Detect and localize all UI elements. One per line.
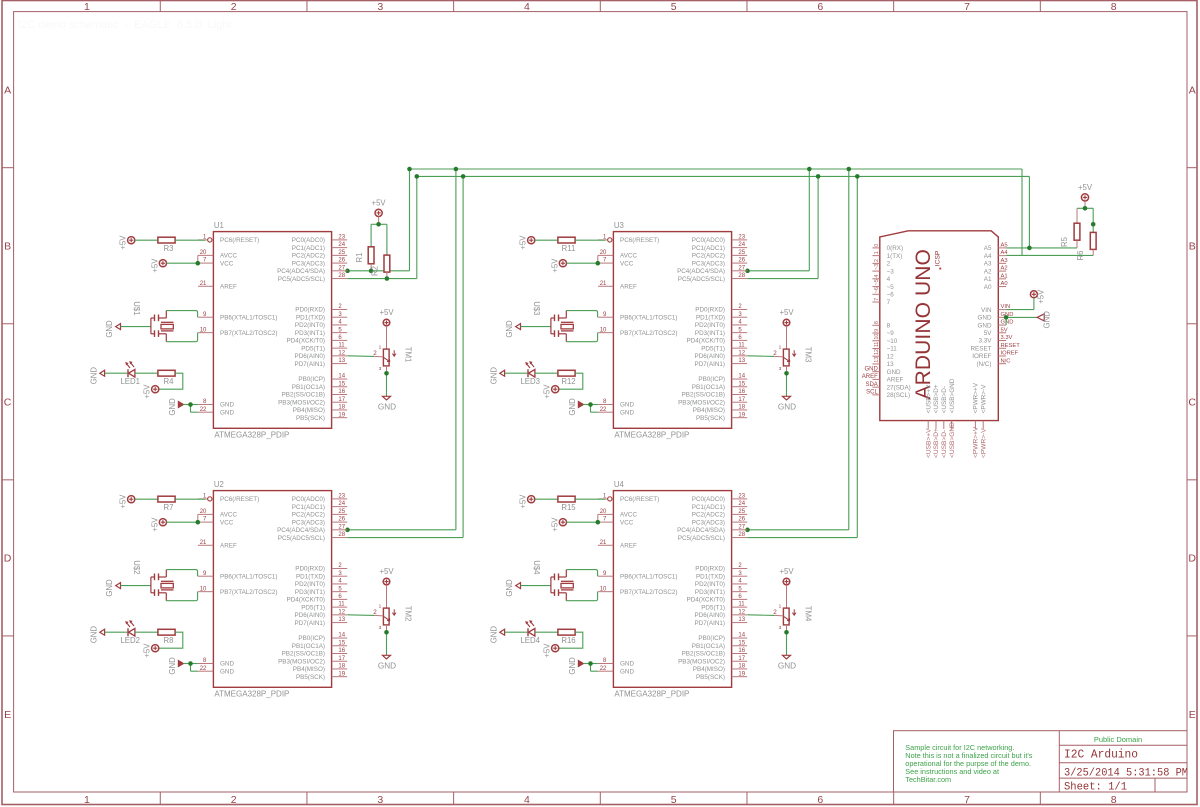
junction U3 SDA bus dot bbox=[807, 167, 812, 172]
svg-text:B: B bbox=[4, 241, 11, 253]
wire gnd to LED1 bbox=[105, 372, 128, 374]
svg-text:A5: A5 bbox=[1001, 243, 1008, 249]
svg-text:AREF: AREF bbox=[887, 377, 904, 384]
ground TM3 bbox=[783, 396, 791, 400]
svg-text:VCC: VCC bbox=[620, 260, 634, 267]
wire +5V to R3 bbox=[135, 239, 158, 241]
svg-text:GND: GND bbox=[864, 366, 878, 372]
svg-text:<USB>D-: <USB>D- bbox=[941, 386, 948, 413]
svg-text:<USB>+V: <USB>+V bbox=[925, 384, 932, 413]
title block frame bbox=[894, 731, 1188, 792]
svg-text:24: 24 bbox=[738, 501, 745, 507]
ground arduino bbox=[1037, 311, 1051, 329]
wire gnd to LED3 bbox=[505, 372, 528, 374]
svg-text:PC2(ADC2): PC2(ADC2) bbox=[292, 512, 325, 519]
frame column tick 5 top bbox=[746, 1, 748, 12]
svg-text:A0: A0 bbox=[1001, 281, 1008, 287]
junction TM4 dot bbox=[784, 630, 789, 635]
svg-text:<USB>D-: <USB>D- bbox=[941, 430, 948, 458]
wire +5V to R11 bbox=[535, 239, 558, 241]
wire LED4 to R16 bbox=[535, 631, 558, 633]
svg-text:R12: R12 bbox=[561, 377, 575, 386]
svg-text:PB5(SCK): PB5(SCK) bbox=[696, 674, 725, 681]
svg-text:PD6(AIN0): PD6(AIN0) bbox=[695, 353, 725, 360]
wire LED2 to R8 bbox=[135, 631, 158, 633]
svg-text:PD5(T1): PD5(T1) bbox=[701, 604, 725, 611]
svg-text:ATMEGA328P_PDIP: ATMEGA328P_PDIP bbox=[614, 690, 689, 699]
power +5V R1R2 bbox=[375, 209, 382, 216]
svg-text:PD5(T1): PD5(T1) bbox=[301, 604, 325, 611]
ground U3 crystal bbox=[516, 324, 521, 330]
svg-text:GND: GND bbox=[220, 402, 234, 409]
IC U1 ATMEGA328P_PDIP box bbox=[213, 221, 331, 440]
ground TM2 bbox=[383, 655, 391, 659]
wire +5V to R5 R6 bbox=[1077, 201, 1093, 232]
wire +5V to TM4 bbox=[786, 585, 788, 608]
svg-text:+5V: +5V bbox=[150, 258, 159, 273]
svg-text:28: 28 bbox=[738, 532, 745, 538]
svg-text:R4: R4 bbox=[164, 377, 175, 386]
svg-text:U$2: U$2 bbox=[132, 560, 141, 574]
resistor R6 bbox=[1076, 232, 1096, 260]
svg-text:10: 10 bbox=[200, 586, 207, 592]
svg-text:<PWR>+V: <PWR>+V bbox=[973, 382, 980, 413]
svg-text:~9: ~9 bbox=[887, 330, 895, 337]
svg-text:21: 21 bbox=[200, 540, 207, 546]
svg-text:PD2(INT0): PD2(INT0) bbox=[695, 581, 725, 588]
IC ARDUINO bottom pins USB bbox=[925, 378, 955, 458]
junction U2 SCL bus dot bbox=[461, 174, 466, 179]
svg-text:+5V: +5V bbox=[143, 643, 152, 658]
svg-text:+5V: +5V bbox=[119, 235, 128, 250]
svg-text:8: 8 bbox=[874, 321, 880, 324]
svg-text:2: 2 bbox=[231, 1, 237, 13]
svg-text:5: 5 bbox=[671, 794, 677, 806]
svg-text:AREF: AREF bbox=[220, 542, 237, 549]
svg-text:PB6(XTAL1/TOSC1): PB6(XTAL1/TOSC1) bbox=[220, 314, 278, 321]
junction U1 SDA bus dot bbox=[407, 167, 412, 172]
svg-text:10: 10 bbox=[600, 327, 607, 333]
svg-text:PD4(XCK/T0): PD4(XCK/T0) bbox=[287, 338, 326, 345]
frame column tick 6 bottom bbox=[893, 792, 895, 805]
wire R3 to pin1 bbox=[175, 239, 205, 241]
wire gnd to pin8/22 bbox=[183, 664, 198, 672]
power +5V U2 reset bbox=[128, 496, 135, 503]
svg-text:27(SDA): 27(SDA) bbox=[887, 384, 911, 391]
svg-text:13: 13 bbox=[887, 361, 895, 368]
svg-text:~11: ~11 bbox=[887, 346, 898, 353]
resistor R3 bbox=[158, 237, 175, 243]
svg-text:26: 26 bbox=[338, 517, 345, 523]
svg-text:ICSP: ICSP bbox=[935, 250, 942, 266]
svg-text:GND: GND bbox=[378, 661, 396, 670]
svg-text:B: B bbox=[1189, 241, 1196, 253]
svg-text:GND: GND bbox=[778, 402, 796, 411]
svg-text:5: 5 bbox=[671, 1, 677, 13]
svg-text:PD3(INT1): PD3(INT1) bbox=[295, 589, 325, 596]
svg-text:PD4(XCK/T0): PD4(XCK/T0) bbox=[287, 597, 326, 604]
svg-text:GND: GND bbox=[1043, 311, 1052, 329]
svg-text:6: 6 bbox=[817, 794, 823, 806]
svg-text:4: 4 bbox=[887, 276, 891, 283]
svg-text:12: 12 bbox=[887, 353, 895, 360]
junction A5 dot bbox=[1027, 246, 1032, 251]
junction U4 SCL bus dot bbox=[855, 174, 860, 179]
svg-text:PB1(OC1A): PB1(OC1A) bbox=[292, 384, 325, 391]
IC ARDUINO left pins 8-13 gnd aref sda scl bbox=[862, 321, 911, 399]
svg-text:PC2(ADC2): PC2(ADC2) bbox=[692, 512, 725, 519]
svg-text:U$3: U$3 bbox=[532, 301, 541, 315]
power +5V U4 VCC bbox=[559, 519, 566, 526]
power +5V TM4 bbox=[783, 578, 790, 585]
svg-text:11: 11 bbox=[338, 602, 345, 608]
frame column tick 4 bottom bbox=[599, 792, 601, 805]
frame column tick 2 bottom bbox=[306, 792, 308, 805]
svg-text:AREF: AREF bbox=[620, 542, 637, 549]
svg-text:GND: GND bbox=[489, 626, 498, 644]
resistor R4 bbox=[158, 370, 175, 376]
svg-text:19: 19 bbox=[738, 671, 745, 677]
svg-text:+5V: +5V bbox=[550, 517, 559, 532]
svg-text:PC3(ADC3): PC3(ADC3) bbox=[292, 260, 325, 267]
junction +5V dot bbox=[376, 222, 381, 227]
resistor R2 bbox=[371, 255, 390, 278]
junction TM2 dot bbox=[384, 630, 389, 635]
svg-text:AVCC: AVCC bbox=[220, 512, 237, 519]
svg-text:PD1(TXD): PD1(TXD) bbox=[696, 314, 725, 321]
svg-text:+5V: +5V bbox=[119, 494, 128, 509]
svg-text:VCC: VCC bbox=[220, 519, 234, 526]
resonator U$4 body bbox=[551, 570, 574, 601]
svg-text:PD7(AIN1): PD7(AIN1) bbox=[295, 361, 325, 368]
svg-text:TechBitar.com: TechBitar.com bbox=[905, 775, 951, 784]
svg-text:15: 15 bbox=[738, 640, 745, 646]
svg-text:PD2(INT0): PD2(INT0) bbox=[295, 581, 325, 588]
frame column tick 1 top bbox=[159, 1, 161, 12]
svg-text:~6: ~6 bbox=[874, 287, 880, 293]
IC U4 ATMEGA328P_PDIP box bbox=[613, 480, 731, 698]
junction U4 SDA stub dot bbox=[745, 528, 750, 533]
svg-text:PD2(INT0): PD2(INT0) bbox=[695, 322, 725, 329]
wire pin12 to TM3 wiper bbox=[747, 355, 774, 358]
svg-text:13: 13 bbox=[338, 358, 345, 364]
svg-text:14: 14 bbox=[338, 374, 345, 380]
svg-text:1: 1 bbox=[779, 603, 782, 609]
IC U2 right pins bbox=[277, 494, 347, 681]
wire TM4 to gnd bbox=[786, 625, 788, 655]
svg-text:25: 25 bbox=[738, 250, 745, 256]
svg-text:U$1: U$1 bbox=[132, 301, 141, 315]
LED LED3 bbox=[520, 361, 540, 386]
ground U1 crystal bbox=[116, 324, 121, 330]
svg-text:GND: GND bbox=[168, 657, 177, 675]
frame row tick A left bbox=[2, 167, 14, 169]
junction VCC dot U4 bbox=[596, 520, 601, 525]
svg-text:1: 1 bbox=[84, 1, 90, 13]
svg-text:GND: GND bbox=[620, 661, 634, 668]
svg-text:PC5(ADC5/SCL): PC5(ADC5/SCL) bbox=[278, 535, 325, 542]
junction TM1 dot bbox=[384, 371, 389, 376]
svg-text:PC6(/RESET): PC6(/RESET) bbox=[620, 496, 659, 503]
svg-text:+5V: +5V bbox=[543, 643, 552, 658]
wire gnd to LED4 bbox=[505, 631, 528, 633]
svg-text:21: 21 bbox=[600, 540, 607, 546]
svg-text:0: 0 bbox=[874, 244, 880, 247]
svg-text:13: 13 bbox=[874, 357, 880, 363]
svg-text:28(SCL): 28(SCL) bbox=[887, 392, 910, 399]
svg-text:14: 14 bbox=[738, 374, 745, 380]
svg-text:27: 27 bbox=[338, 524, 345, 530]
IC U3 ATMEGA328P_PDIP box bbox=[613, 221, 731, 440]
svg-text:28: 28 bbox=[738, 273, 745, 279]
wire R11 to pin1 bbox=[575, 239, 605, 241]
ground U3 pins bbox=[578, 402, 583, 408]
svg-text:A2: A2 bbox=[984, 268, 992, 275]
svg-text:GND: GND bbox=[89, 626, 98, 644]
svg-text:25: 25 bbox=[338, 509, 345, 515]
frame row tick A right bbox=[1187, 167, 1197, 169]
junction U3 SCL bus dot bbox=[816, 174, 821, 179]
svg-text:GND: GND bbox=[378, 402, 396, 411]
svg-text:+5V: +5V bbox=[550, 258, 559, 273]
svg-text:1: 1 bbox=[874, 251, 880, 254]
svg-text:+5V: +5V bbox=[519, 494, 528, 509]
wire gnd to resonator bbox=[521, 585, 551, 587]
frame column tick 7 top bbox=[1039, 1, 1041, 12]
svg-text:GND: GND bbox=[620, 668, 634, 675]
svg-text:PB3(MOSI/OC2): PB3(MOSI/OC2) bbox=[678, 399, 725, 406]
svg-text:3: 3 bbox=[779, 366, 782, 372]
svg-text:4: 4 bbox=[524, 1, 530, 13]
wire SDA bus right drop to A4 bbox=[1021, 169, 1023, 255]
svg-text:22: 22 bbox=[600, 666, 607, 672]
IC U4 left pins bbox=[598, 494, 678, 676]
svg-text:GND: GND bbox=[105, 320, 114, 338]
svg-text:17: 17 bbox=[738, 397, 745, 403]
wire R8 to +5V bbox=[159, 632, 183, 648]
power +5V U1 VCC bbox=[159, 260, 166, 267]
svg-text:3: 3 bbox=[379, 366, 382, 372]
power +5V U3 VCC bbox=[559, 260, 566, 267]
svg-text:20: 20 bbox=[600, 509, 607, 515]
svg-text:20: 20 bbox=[200, 250, 207, 256]
junction U2 SDA bus dot bbox=[454, 167, 459, 172]
frame row tick B left bbox=[2, 323, 14, 325]
svg-text:~5: ~5 bbox=[874, 279, 880, 285]
svg-text:AVCC: AVCC bbox=[620, 512, 637, 519]
ground U2 pins bbox=[178, 661, 183, 667]
resonator U$1 body bbox=[151, 311, 174, 342]
wire TM2 to gnd bbox=[386, 625, 388, 655]
svg-text:PB7(XTAL2/TOSC2): PB7(XTAL2/TOSC2) bbox=[220, 330, 278, 337]
svg-text:9: 9 bbox=[874, 329, 880, 332]
svg-text:PB4(MISO): PB4(MISO) bbox=[293, 407, 325, 414]
wire gnd to resonator bbox=[121, 326, 151, 328]
trimmer TM3 bbox=[773, 344, 812, 372]
svg-text:3: 3 bbox=[379, 625, 382, 631]
wire R16 to +5V bbox=[559, 632, 583, 648]
svg-text:IOREF: IOREF bbox=[972, 353, 991, 360]
svg-text:PB1(OC1A): PB1(OC1A) bbox=[692, 384, 725, 391]
wire resonator to pin10 bbox=[166, 592, 197, 601]
wire U2 SCL net to bus bbox=[347, 176, 463, 537]
svg-text:PB7(XTAL2/TOSC2): PB7(XTAL2/TOSC2) bbox=[220, 589, 278, 596]
svg-text:PC6(/RESET): PC6(/RESET) bbox=[620, 237, 659, 244]
resistor R1 bbox=[355, 247, 374, 271]
IC ARDUINO UNO outline bbox=[880, 231, 999, 421]
junction R1 dot bbox=[369, 269, 374, 274]
svg-text:R8: R8 bbox=[164, 636, 174, 645]
svg-text:PD6(AIN0): PD6(AIN0) bbox=[295, 353, 325, 360]
svg-text:<USB>D+: <USB>D+ bbox=[933, 428, 940, 458]
svg-text:10: 10 bbox=[874, 334, 880, 340]
svg-text:AVCC: AVCC bbox=[620, 253, 637, 260]
power +5V TM2 bbox=[383, 578, 390, 585]
svg-text:PB7(XTAL2/TOSC2): PB7(XTAL2/TOSC2) bbox=[620, 589, 678, 596]
svg-text:ATMEGA328P_PDIP: ATMEGA328P_PDIP bbox=[214, 690, 289, 699]
svg-text:14: 14 bbox=[738, 633, 745, 639]
wire +5V to R15 bbox=[535, 498, 558, 500]
svg-text:16: 16 bbox=[738, 648, 745, 654]
svg-text:6: 6 bbox=[817, 1, 823, 13]
svg-text:13: 13 bbox=[338, 617, 345, 623]
svg-text:LED1: LED1 bbox=[120, 377, 140, 386]
junction TM3 dot bbox=[784, 371, 789, 376]
resonator U$2 body bbox=[151, 570, 174, 601]
svg-text:PB3(MOSI/OC2): PB3(MOSI/OC2) bbox=[278, 399, 325, 406]
svg-text:R7: R7 bbox=[164, 503, 174, 512]
power +5V LED3 bbox=[552, 386, 559, 393]
svg-text:7: 7 bbox=[964, 1, 970, 13]
svg-text:PD3(INT1): PD3(INT1) bbox=[695, 589, 725, 596]
svg-text:PD5(T1): PD5(T1) bbox=[301, 345, 325, 352]
svg-text:GND: GND bbox=[489, 367, 498, 385]
junction VCC dot U3 bbox=[596, 261, 601, 266]
wire SCL bus right drop to A5 bbox=[1028, 176, 1030, 248]
svg-text:25: 25 bbox=[338, 250, 345, 256]
svg-text:17: 17 bbox=[738, 656, 745, 662]
svg-text:GND: GND bbox=[778, 661, 796, 670]
svg-text:11: 11 bbox=[874, 342, 880, 348]
svg-text:+5V: +5V bbox=[519, 235, 528, 250]
svg-text:16: 16 bbox=[338, 389, 345, 395]
ground LED3 bbox=[500, 370, 505, 376]
svg-text:PD1(TXD): PD1(TXD) bbox=[296, 314, 325, 321]
frame column tick 2 top bbox=[306, 1, 308, 12]
wire +5V to VIN bbox=[1006, 298, 1034, 310]
junction R6 top dot bbox=[1091, 222, 1096, 227]
wire +5V to TM3 bbox=[786, 326, 788, 349]
svg-text:PD0(RXD): PD0(RXD) bbox=[295, 307, 325, 314]
svg-text:GND: GND bbox=[1001, 320, 1014, 326]
svg-text:PD0(RXD): PD0(RXD) bbox=[695, 566, 725, 573]
IC U1 right pins bbox=[277, 235, 347, 422]
svg-text:AREF: AREF bbox=[862, 374, 878, 380]
frame column tick 4 top bbox=[599, 1, 601, 12]
svg-text:10: 10 bbox=[600, 586, 607, 592]
junction U1 SDA stub dot bbox=[345, 269, 350, 274]
svg-text:PD7(AIN1): PD7(AIN1) bbox=[295, 620, 325, 627]
IC U3 right pins bbox=[677, 235, 747, 422]
IC ARDUINO right pins A5-A0 bbox=[984, 243, 1009, 291]
wire LED3 to R12 bbox=[535, 372, 558, 374]
svg-text:PC0(ADC0): PC0(ADC0) bbox=[692, 496, 725, 503]
svg-text:8: 8 bbox=[1111, 1, 1117, 13]
svg-text:2: 2 bbox=[231, 794, 237, 806]
svg-text:AREF: AREF bbox=[220, 283, 237, 290]
svg-text:U2: U2 bbox=[214, 480, 224, 489]
svg-text:GND: GND bbox=[505, 320, 514, 338]
svg-text:GND: GND bbox=[568, 657, 577, 675]
wire resonator to pin9 bbox=[166, 570, 197, 577]
svg-text:PB1(OC1A): PB1(OC1A) bbox=[692, 643, 725, 650]
IC ARDUINO left pins digital 0-7 bbox=[872, 244, 903, 307]
svg-text:19: 19 bbox=[738, 412, 745, 418]
svg-text:<USB>GND: <USB>GND bbox=[949, 422, 956, 458]
svg-text:A5: A5 bbox=[984, 245, 992, 252]
svg-text:PB6(XTAL1/TOSC1): PB6(XTAL1/TOSC1) bbox=[220, 573, 278, 580]
svg-text:20: 20 bbox=[600, 250, 607, 256]
frame column tick 6 top bbox=[893, 1, 895, 12]
svg-text:LED4: LED4 bbox=[520, 636, 540, 645]
svg-text:12: 12 bbox=[874, 349, 880, 355]
svg-text:12: 12 bbox=[738, 350, 745, 356]
svg-text:4: 4 bbox=[524, 794, 530, 806]
svg-text:+5V: +5V bbox=[779, 567, 794, 576]
svg-text:Sheet: 1/1: Sheet: 1/1 bbox=[1064, 781, 1127, 793]
wire LED1 to R4 bbox=[135, 372, 158, 374]
svg-text:SDA: SDA bbox=[865, 382, 877, 388]
resonator U$3 body bbox=[551, 311, 574, 342]
svg-text:PD7(AIN1): PD7(AIN1) bbox=[695, 620, 725, 627]
svg-text:A3: A3 bbox=[1001, 258, 1008, 264]
svg-text:TM3: TM3 bbox=[803, 347, 812, 363]
junction gnd dot U4 bbox=[588, 661, 593, 666]
svg-text:26: 26 bbox=[738, 517, 745, 523]
svg-text:~10: ~10 bbox=[887, 338, 898, 345]
IC U4 right pins bbox=[677, 494, 747, 681]
svg-text:U1: U1 bbox=[214, 221, 224, 230]
resistor R5 bbox=[1060, 223, 1080, 248]
svg-text:17: 17 bbox=[338, 397, 345, 403]
resistor R12 bbox=[558, 370, 575, 376]
svg-text:3: 3 bbox=[377, 1, 383, 13]
svg-text:PD5(T1): PD5(T1) bbox=[701, 345, 725, 352]
faint watermark bbox=[18, 19, 231, 31]
svg-text:PD1(TXD): PD1(TXD) bbox=[296, 573, 325, 580]
svg-text:+5V: +5V bbox=[379, 308, 394, 317]
trimmer TM2 bbox=[373, 603, 412, 631]
svg-text:R15: R15 bbox=[561, 503, 576, 512]
svg-text:A4: A4 bbox=[984, 253, 992, 260]
svg-text:PD3(INT1): PD3(INT1) bbox=[695, 330, 725, 337]
svg-text:24: 24 bbox=[338, 501, 345, 507]
svg-text:E: E bbox=[1189, 709, 1196, 721]
LED LED2 bbox=[120, 620, 140, 645]
svg-text:PD4(XCK/T0): PD4(XCK/T0) bbox=[687, 338, 726, 345]
svg-text:18: 18 bbox=[738, 405, 745, 411]
svg-text:+5V: +5V bbox=[1036, 289, 1045, 304]
svg-text:PC0(ADC0): PC0(ADC0) bbox=[692, 237, 725, 244]
svg-text:U3: U3 bbox=[614, 221, 624, 230]
svg-text:27: 27 bbox=[338, 265, 345, 271]
svg-text:A: A bbox=[1189, 84, 1196, 96]
svg-text:17: 17 bbox=[338, 656, 345, 662]
wire SDA bus horizontal bbox=[410, 168, 1023, 170]
svg-text:+5V: +5V bbox=[150, 517, 159, 532]
svg-text:19: 19 bbox=[338, 412, 345, 418]
svg-text:3.3V: 3.3V bbox=[979, 338, 993, 345]
